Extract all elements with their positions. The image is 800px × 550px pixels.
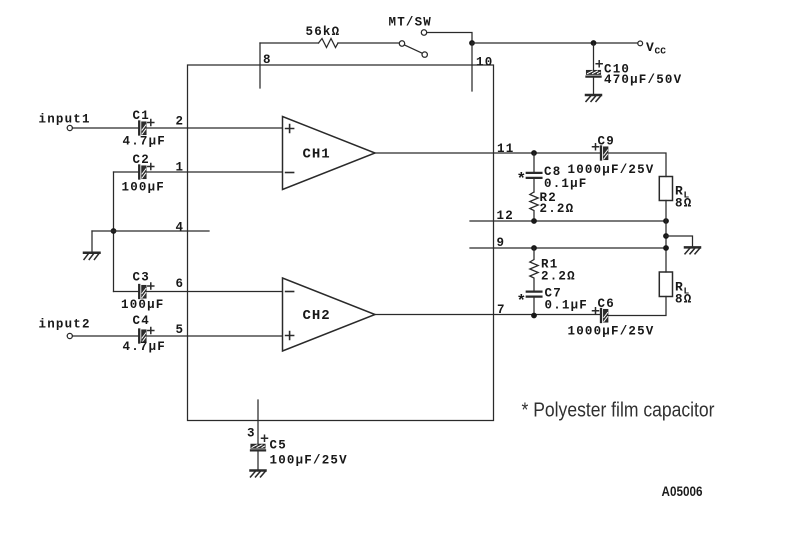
- node ground tap: [663, 233, 669, 239]
- node pin9 / R1 branch: [531, 245, 537, 251]
- svg-text:MT/SW: MT/SW: [389, 16, 433, 30]
- svg-text:C3: C3: [133, 271, 150, 285]
- wire C9 to right vertical: [608, 153, 666, 177]
- resistor RL top 8ohm: [659, 177, 692, 211]
- resistor R1 2.2ohm: [530, 248, 576, 290]
- svg-text:1: 1: [176, 161, 185, 175]
- svg-text:100µF: 100µF: [122, 181, 166, 195]
- capacitor C1 4.7uF: [123, 109, 167, 149]
- wire C3 left to vertical: [114, 291, 138, 293]
- node pin11 / C8 branch: [531, 150, 537, 156]
- svg-text:input2: input2: [39, 318, 91, 332]
- terminal Vcc: [638, 40, 666, 57]
- op-amp CH2: [283, 278, 376, 351]
- svg-text:470µF/50V: 470µF/50V: [604, 73, 682, 87]
- wire resistor to switch: [338, 42, 399, 44]
- wire C6 to right vertical: [608, 297, 666, 316]
- wire right vertical RL1 to RL2: [665, 201, 667, 273]
- svg-text:100µF: 100µF: [121, 298, 165, 312]
- svg-text:CH2: CH2: [303, 308, 331, 324]
- wire switch to rail corner: [427, 33, 472, 44]
- note polyester film capacitor: [522, 399, 715, 422]
- svg-text:C5: C5: [270, 439, 287, 453]
- node C10 tap: [591, 40, 597, 46]
- wire C2 left to vertical: [114, 171, 138, 173]
- svg-text:2.2Ω: 2.2Ω: [541, 270, 576, 284]
- wire CH1 output to pin11 and C9: [375, 142, 600, 156]
- capacitor C9 1000uF/25V: [568, 135, 655, 178]
- svg-text:8: 8: [263, 53, 272, 67]
- svg-text:9: 9: [497, 236, 506, 250]
- svg-text:7: 7: [497, 303, 506, 317]
- wire pin 12: [470, 209, 666, 223]
- wire pin 4: [92, 221, 209, 235]
- svg-text:0.1µF: 0.1µF: [544, 177, 588, 191]
- wire pin 9: [470, 236, 666, 250]
- node left vertical / pin4: [111, 228, 117, 234]
- wire rail to Vcc: [472, 42, 638, 44]
- capacitor C8 0.1uF film: [517, 153, 588, 192]
- op-amp CH1: [283, 117, 376, 190]
- svg-text:*: *: [517, 171, 527, 189]
- capacitor C4 4.7uF: [123, 314, 167, 354]
- svg-text:8Ω: 8Ω: [675, 197, 692, 211]
- svg-text:100µF/25V: 100µF/25V: [270, 454, 348, 468]
- wire C4 to pin5 / CH2 + input: [146, 323, 282, 337]
- wire ground tap: [666, 236, 693, 247]
- node pin12 / right vertical: [663, 218, 669, 224]
- terminal input1: [67, 125, 72, 130]
- capacitor C7 0.1uF film: [517, 287, 589, 316]
- pin 8 stub: [260, 43, 272, 88]
- svg-text:2.2Ω: 2.2Ω: [540, 202, 575, 216]
- wire input2 to C4: [72, 335, 137, 337]
- capacitor C6 1000uF/25V: [568, 297, 655, 339]
- svg-text:4.7µF: 4.7µF: [123, 340, 167, 354]
- svg-text:4: 4: [176, 221, 185, 235]
- resistor 56k: [306, 25, 341, 48]
- svg-text:V: V: [646, 40, 655, 55]
- pin 3 stub: [247, 400, 258, 444]
- svg-text:1000µF/25V: 1000µF/25V: [568, 325, 655, 339]
- svg-text:C6: C6: [598, 297, 615, 311]
- node pin7 / C7 branch: [531, 313, 537, 319]
- svg-text:3: 3: [247, 427, 256, 441]
- text drawing code A05006: [662, 484, 703, 499]
- svg-text:2: 2: [176, 115, 185, 129]
- wire CH2 output to pin7 and C6: [375, 303, 600, 317]
- svg-text:C4: C4: [133, 314, 150, 328]
- svg-text:CC: CC: [655, 46, 667, 57]
- svg-text:11: 11: [497, 142, 514, 156]
- svg-text:C1: C1: [133, 109, 150, 123]
- node R2 bottom / pin12: [531, 218, 537, 224]
- svg-text:input1: input1: [39, 113, 91, 127]
- IC block outline: [188, 65, 494, 421]
- svg-text:*: *: [517, 293, 527, 311]
- wire C2 to pin1 / CH1 - input: [146, 161, 282, 175]
- svg-text:C9: C9: [598, 135, 615, 149]
- svg-text:C2: C2: [133, 153, 150, 167]
- ground under C10: [586, 95, 601, 101]
- svg-text:A05006: A05006: [662, 484, 703, 499]
- wire ground branch left: [91, 231, 93, 252]
- svg-text:6: 6: [176, 277, 185, 291]
- capacitor C10 470uF/50V: [587, 43, 683, 95]
- svg-text:5: 5: [176, 323, 185, 337]
- wire C3 to pin6 / CH2 - input: [146, 277, 282, 292]
- svg-text:CH1: CH1: [303, 147, 331, 163]
- text input2: [39, 318, 91, 332]
- svg-text:0.1µF: 0.1µF: [545, 299, 589, 313]
- wire left vertical C2-C3: [113, 172, 115, 292]
- ground under C5: [251, 471, 266, 477]
- svg-text:8Ω: 8Ω: [675, 293, 692, 307]
- svg-text:1000µF/25V: 1000µF/25V: [568, 163, 655, 177]
- text input1: [39, 113, 91, 127]
- node rail/pin10 junction: [469, 40, 475, 46]
- capacitor C2 100uF: [122, 153, 166, 195]
- svg-text:56kΩ: 56kΩ: [306, 25, 341, 39]
- svg-text:* Polyester film capacitor: * Polyester film capacitor: [522, 399, 715, 422]
- pin 10 stub: [472, 43, 493, 91]
- svg-text:10: 10: [476, 56, 493, 70]
- ground left input side: [84, 253, 100, 260]
- wire input1 to C1: [72, 127, 137, 129]
- svg-text:4.7µF: 4.7µF: [123, 135, 167, 149]
- resistor RL bottom 8ohm: [659, 272, 692, 307]
- capacitor C3 100uF: [121, 271, 165, 313]
- node pin9 / right vertical: [663, 245, 669, 251]
- ground right of RL: [685, 247, 700, 253]
- terminal input2: [67, 333, 72, 338]
- svg-text:12: 12: [497, 209, 514, 223]
- wire C1 to pin2 / CH1 + input: [146, 115, 282, 129]
- resistor R2 2.2ohm: [530, 191, 575, 221]
- capacitor C5 100uF/25V: [251, 435, 348, 470]
- switch MT/SW: [389, 16, 433, 58]
- wire top rail left: [260, 42, 319, 44]
